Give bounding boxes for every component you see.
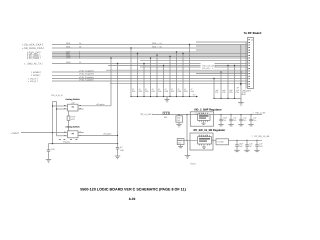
wire vertical A <box>52 102 54 144</box>
wire bus line 7 <box>52 57 248 59</box>
wire drop R31 <box>130 47 131 96</box>
wire 5V pair line <box>52 71 248 73</box>
wire bus line 6 <box>52 56 248 58</box>
svg-text:1 5V⁄MM 〉: 1 5V⁄MM 〉 <box>31 71 42 74</box>
U38 top labels <box>195 112 205 115</box>
capacitor C47 <box>244 140 253 152</box>
svg-text:5V_in_out 〉: 5V_in_out 〉 <box>141 113 154 116</box>
wire far-right net 0b <box>196 45 248 47</box>
wire drop R37 <box>169 56 170 97</box>
svg-text:«⁄VID_S game⁄»: «⁄VID_S game⁄» <box>79 78 95 81</box>
svg-text:SDA: SDA <box>66 42 71 45</box>
wire cap cluster rail <box>214 97 241 99</box>
svg-text:L6 600: L6 600 <box>218 141 225 144</box>
resistor R36 label <box>165 88 168 93</box>
inductor L6 <box>212 139 229 145</box>
svg-text:VID_AE 〉 1: VID_AE 〉 1 <box>202 67 214 70</box>
svg-text:R38: R38 <box>178 90 181 93</box>
svg-text:C43: C43 <box>243 119 246 122</box>
resistor R38a label <box>178 88 181 93</box>
wire 5V down feed <box>186 114 187 141</box>
connector pin numbers <box>248 39 250 86</box>
resistor R34 label <box>152 88 155 93</box>
inductor L5 <box>163 112 169 119</box>
wire far-right net 0c <box>196 49 248 51</box>
svg-text:« ..SND_AE_TX 〉: « ..SND_AE_TX 〉 <box>24 62 44 66</box>
wire drop R33 <box>143 63 144 97</box>
wire 1P arrow <box>240 45 242 86</box>
capacitor C40sw labels <box>120 146 125 152</box>
wire VID_R line <box>52 74 248 76</box>
pin numbers U36 <box>64 105 81 109</box>
svg-text:SDA: SDA <box>66 45 71 48</box>
capacitor C31 drop <box>213 78 219 99</box>
wire drop R38 <box>176 51 177 96</box>
wire reg2 left down <box>187 140 189 155</box>
wire drop R35 <box>156 54 157 96</box>
pin numbers U37 <box>64 132 81 136</box>
wire far-right net 2 <box>140 66 248 68</box>
svg-text:2 5V⁄SB 〉: 2 5V⁄SB 〉 <box>31 74 42 77</box>
capacitor C44 <box>248 114 257 126</box>
svg-text:⁄P⁄,⁄P: ⁄P⁄,⁄P <box>241 93 247 96</box>
wire far-right net 1 <box>140 59 248 61</box>
svg-text:C42: C42 <box>233 119 236 122</box>
wire regulator2 input <box>177 139 197 141</box>
svg-text:R40: R40 <box>191 90 194 93</box>
resistor R31 label <box>132 88 135 93</box>
svg-text:Analog Switch: Analog Switch <box>65 126 80 129</box>
wire U36 pin1 <box>52 105 68 106</box>
resistor R39 label <box>184 88 187 93</box>
junction dots on rail <box>130 96 190 97</box>
svg-text:C47: C47 <box>249 145 252 148</box>
capacitor C42 <box>228 114 237 126</box>
resistor R37 label <box>171 88 174 93</box>
junction dots cap rail <box>213 98 235 99</box>
wire drop R39 <box>182 53 183 97</box>
svg-text:« SD_DATA_CKA 〉: « SD_DATA_CKA 〉 <box>22 46 46 50</box>
capacitor C39 <box>47 144 50 160</box>
svg-text:〉 RF_5W_15_5B: 〉 RF_5W_15_5B <box>252 135 270 138</box>
capacitor C41 <box>218 114 228 126</box>
wire drop R36 <box>163 65 164 97</box>
wire drop to analog switch R out <box>110 57 111 106</box>
svg-text:R37: R37 <box>171 90 174 93</box>
svg-text:LT1117 U39: LT1117 U39 <box>198 134 208 137</box>
wire VID_B line <box>52 80 248 82</box>
wire bus line 5 <box>52 54 248 56</box>
svg-text:«⁄B game: «⁄B game <box>103 133 112 136</box>
svg-text:VID_2_5MF Regulator: VID_2_5MF Regulator <box>194 109 222 112</box>
svg-text:C32: C32 <box>222 91 225 94</box>
svg-text:«⁄VID_R game⁄»: «⁄VID_R game⁄» <box>79 69 95 72</box>
capacitor C43 <box>238 114 247 126</box>
resistor R40 label <box>191 88 194 93</box>
U38 pin stub bottom <box>202 120 206 124</box>
svg-text:«⁄VID_G game⁄»: «⁄VID_G game⁄» <box>79 73 95 76</box>
resistor R29 between switches <box>67 111 70 131</box>
resistor R29 labels <box>71 116 76 122</box>
wire right-half net 2 <box>106 69 248 71</box>
ground on rail <box>165 97 170 103</box>
wire SD_ACA_CKA <box>52 44 248 46</box>
wire U36 out to VID_R_game <box>78 105 111 107</box>
wire U36 pin2 <box>56 108 68 109</box>
svg-text:VID_CLK_AE 1: VID_CLK_AE 1 <box>202 64 217 67</box>
svg-text:C45: C45 <box>178 142 181 145</box>
svg-text:R39: R39 <box>184 90 187 93</box>
wire 5V_MAIN from left <box>21 132 53 134</box>
capacitor C48 <box>254 140 263 152</box>
svg-text:〉 VID_2_5V: 〉 VID_2_5V <box>253 111 266 114</box>
wire regulator2 output <box>229 139 263 141</box>
voltage regulator U38 body <box>198 113 211 122</box>
wire common rail <box>131 96 196 98</box>
capacitor C46 <box>234 140 244 152</box>
svg-text:« VID_B 〉: « VID_B 〉 <box>28 80 39 83</box>
svg-text:SDA — 14: SDA — 14 <box>152 42 163 45</box>
pin marks under U37 <box>59 138 77 141</box>
regulator 1 boundary box <box>190 112 213 126</box>
wire far-right net 0a <box>196 41 248 43</box>
wire top tie <box>53 101 57 103</box>
svg-text:VID_A_B_M: VID_A_B_M <box>51 94 63 97</box>
capacitor C40 <box>176 114 183 124</box>
wire far-right net 4 <box>110 82 248 84</box>
wire right-half net <box>108 65 248 67</box>
svg-text:C46: C46 <box>239 145 242 148</box>
note text block background <box>201 63 215 70</box>
svg-text:SDA — 15: SDA — 15 <box>152 45 163 48</box>
capacitor C35 drop <box>240 71 246 98</box>
wire SD_DATA_CKA <box>52 47 248 49</box>
resistor R32 label <box>139 88 142 93</box>
wire SND_AE_TX <box>52 63 248 65</box>
svg-text:C31: C31 <box>215 91 218 94</box>
svg-text:SND: SND <box>66 61 71 64</box>
ground reg2 left <box>185 156 191 159</box>
resistor R33 label <box>145 88 148 93</box>
svg-text:R31: R31 <box>132 90 135 93</box>
capacitor C40sw <box>116 144 119 156</box>
wire regulator1 output <box>210 114 262 116</box>
connector J16 body <box>248 38 254 89</box>
wire drop R34 <box>150 57 151 96</box>
svg-text:⁄n〉: ⁄n〉 <box>192 94 197 97</box>
op-amp U36 analog switch body <box>68 104 79 111</box>
ground cap cluster <box>238 98 244 105</box>
ground under C40 <box>176 124 181 127</box>
wire U36 out stub2 <box>78 108 84 110</box>
svg-text:R35: R35 <box>158 90 161 93</box>
svg-text:CME: CME <box>66 57 71 60</box>
regulator 2 boundary box <box>190 133 213 150</box>
svg-text:C44: C44 <box>253 119 256 122</box>
capacitor C40 label <box>177 116 182 122</box>
wire far-right net 3 <box>196 73 248 75</box>
wire bottom tie <box>49 143 119 144</box>
wire drop R40 <box>189 44 190 97</box>
svg-text:« SD_ACA_CKA 〉: « SD_ACA_CKA 〉 <box>22 43 45 47</box>
svg-text:C48: C48 <box>259 145 262 148</box>
wire bus line 4 <box>52 53 248 55</box>
svg-text:5500-120 LOGIC BOARD VER C SCH: 5500-120 LOGIC BOARD VER C SCHEMATIC (PA… <box>80 188 186 192</box>
svg-text:8-39: 8-39 <box>129 197 136 201</box>
wire pin column <box>245 42 247 89</box>
svg-text:C41: C41 <box>223 119 226 122</box>
wire U37 out stub2 <box>78 131 84 133</box>
wire 5V input <box>152 114 198 116</box>
svg-text:R36: R36 <box>165 90 168 93</box>
svg-text:Analog Switch: Analog Switch <box>65 98 80 101</box>
capacitor C45 <box>177 139 184 148</box>
wire bus line 3 <box>52 51 248 53</box>
svg-text:«⁄R game: «⁄R game <box>96 103 105 106</box>
svg-text:RF_5W_15_5B Regulator: RF_5W_15_5B Regulator <box>194 129 226 132</box>
svg-text:5 SD_CMME 〉: 5 SD_CMME 〉 <box>27 57 42 60</box>
svg-text:600: 600 <box>164 116 167 119</box>
ground under C39 <box>46 160 51 163</box>
wire drop to analog switch B out <box>117 63 118 144</box>
wire VID_G line <box>52 78 248 80</box>
wire U37 pin2 <box>57 135 68 137</box>
svg-text:R33: R33 <box>145 90 148 93</box>
svg-text:R34: R34 <box>152 90 155 93</box>
node rail end label <box>192 94 198 98</box>
svg-text:5V⁄game: 5V⁄game <box>63 140 70 143</box>
wire drop R32 <box>137 53 138 97</box>
capacitor C32 drop <box>220 71 226 98</box>
resistor R35 label <box>158 88 161 93</box>
svg-text:5V⁄rtn: 5V⁄rtn <box>191 163 196 166</box>
wire vertical B <box>56 102 58 136</box>
svg-text:To RF Board: To RF Board <box>244 31 262 35</box>
svg-text:game: game <box>246 90 252 93</box>
svg-text:R32: R32 <box>139 90 142 93</box>
wire U37 pin1 <box>52 132 68 133</box>
op-amp U37 analog switch body <box>68 131 79 138</box>
U39 ground stub <box>202 144 206 148</box>
svg-text:C33: C33 <box>229 91 232 94</box>
capacitor C33 drop <box>227 65 233 99</box>
svg-text:C34: C34 <box>236 91 239 94</box>
wire U37 out to VID_B_game <box>78 135 118 136</box>
U38 pin stub left <box>195 114 198 116</box>
capacitor C34 drop <box>234 65 240 99</box>
U39 top labels <box>198 134 208 137</box>
svg-text:C40: C40 <box>177 119 180 122</box>
ground under C40sw <box>115 156 120 159</box>
voltage regulator U39 body <box>198 135 212 145</box>
svg-text:« 5V⁄M 〉: « 5V⁄M 〉 <box>11 132 21 135</box>
